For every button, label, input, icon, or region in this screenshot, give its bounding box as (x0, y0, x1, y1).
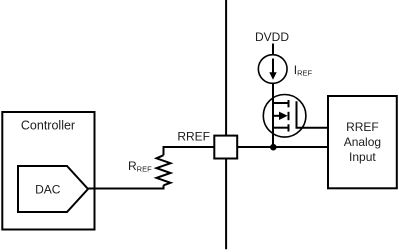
svg-text:Controller: Controller (21, 118, 75, 132)
svg-text:Input: Input (349, 150, 376, 164)
svg-text:RREF: RREF (177, 130, 210, 144)
svg-text:DVDD: DVDD (255, 30, 289, 44)
svg-text:Analog: Analog (344, 135, 381, 149)
svg-text:DAC: DAC (35, 182, 61, 196)
svg-text:RREF: RREF (346, 120, 379, 134)
